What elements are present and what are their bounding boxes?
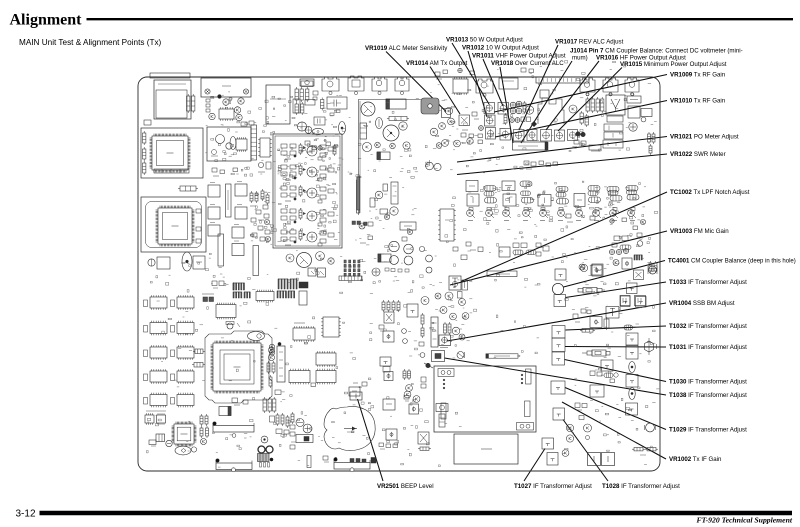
coil can	[322, 77, 339, 95]
box with dark core	[432, 351, 445, 362]
ecap cluster	[510, 101, 526, 114]
small parts br	[232, 398, 248, 405]
svg-text:VR1018 Over Current ALC: VR1018 Over Current ALC	[491, 60, 564, 67]
speckle topleft2	[205, 96, 351, 179]
trimmer circle	[372, 268, 380, 276]
svg-text:T1030 IF Transformer Adjust: T1030 IF Transformer Adjust	[669, 379, 747, 386]
transistor small	[375, 142, 381, 148]
transistor small	[328, 258, 334, 264]
tall narrow bar 2	[218, 234, 224, 266]
svg-text:3-12: 3-12	[16, 509, 36, 520]
square with trimmer	[606, 307, 619, 319]
svg-text:VR1010 Tx RF Gain: VR1010 Tx RF Gain	[670, 98, 726, 105]
small part	[144, 120, 151, 125]
leader T1027	[524, 449, 545, 482]
leader VR1012	[468, 51, 487, 117]
cap in box C	[211, 150, 218, 157]
dark diamond	[531, 121, 537, 127]
screw left	[205, 89, 210, 94]
pin comb headers2	[277, 291, 295, 298]
oval slug2	[629, 388, 636, 400]
mixer rows extra	[468, 208, 635, 221]
dark dot bar2	[216, 459, 220, 463]
transistor	[286, 254, 294, 262]
svg-text:T1038 IF Transformer Adjust: T1038 IF Transformer Adjust	[669, 392, 747, 399]
label T1033	[669, 279, 747, 286]
CPU island outline	[205, 331, 272, 403]
speckle mixer gap	[445, 183, 546, 241]
svg-text:TC4001 CM Coupler Balance (dee: TC4001 CM Coupler Balance (deep in this …	[668, 259, 796, 265]
shield square grid	[208, 182, 247, 256]
SOIC U4007	[216, 303, 236, 320]
speckle topmid	[358, 99, 557, 173]
LP square	[380, 357, 391, 372]
label J1014	[570, 48, 743, 62]
svg-text:VR1015 Minimum Power Output Ad: VR1015 Minimum Power Output Adjust	[620, 61, 727, 68]
transistors in box C	[216, 135, 237, 150]
small cluster	[574, 140, 601, 151]
small parts	[275, 382, 367, 395]
cap box	[607, 116, 623, 122]
tall vertical bar conn	[431, 317, 438, 347]
mixer filter rows	[466, 181, 639, 207]
svg-text:VR1017 REV ALC Adjust: VR1017 REV ALC Adjust	[555, 39, 624, 46]
hatch bar	[439, 414, 445, 427]
label VR1004	[669, 300, 735, 307]
leader VR1009	[494, 75, 667, 113]
MAIN unit board outline	[138, 77, 660, 471]
footer rule	[40, 511, 793, 516]
leader VR1022	[457, 154, 667, 175]
T squares bottom	[621, 296, 647, 307]
IC top edge	[453, 77, 468, 95]
tiny parts row	[385, 268, 409, 272]
module with screws	[201, 78, 251, 97]
parts br2	[632, 448, 658, 456]
striped box dark	[296, 435, 313, 443]
resistor pair right of J4001	[187, 94, 195, 113]
T square T1030	[552, 352, 565, 365]
analog module block	[273, 134, 342, 248]
edge hole	[232, 468, 236, 472]
circles	[269, 344, 275, 355]
square right	[407, 304, 418, 317]
bracket small	[307, 456, 311, 468]
VR pot square	[484, 103, 495, 114]
edge hole2	[350, 468, 354, 472]
coil can	[372, 77, 387, 95]
varactor oval	[175, 446, 191, 455]
round VR	[629, 123, 637, 131]
inner parts big module	[438, 369, 534, 431]
svg-text:VR1021 PO Meter Adjust: VR1021 PO Meter Adjust	[670, 134, 739, 141]
trim bars pair	[444, 322, 452, 335]
VR pot row sq4	[541, 130, 552, 142]
resistor h pair	[192, 349, 205, 367]
label T1030	[669, 379, 747, 386]
T square colB 1	[626, 333, 638, 345]
right column parts	[276, 413, 289, 434]
speckle bottom left	[147, 398, 310, 467]
svg-text:VR1004 SSB BM Adjust: VR1004 SSB BM Adjust	[669, 300, 735, 307]
small label parts	[330, 110, 340, 116]
sixth square row	[568, 130, 578, 141]
tiny parts row	[379, 443, 398, 449]
big hole circle TC4001	[552, 283, 563, 294]
crystal circle	[226, 322, 240, 330]
leader T1029	[565, 388, 666, 430]
square with X	[634, 270, 644, 280]
title rule	[87, 18, 794, 20]
leader TC4001	[564, 261, 666, 288]
leader T1028	[563, 420, 608, 482]
vbar cross	[604, 317, 609, 330]
striped rect	[156, 434, 165, 442]
connector J1014 wide	[536, 77, 589, 83]
dense column speckle	[250, 192, 276, 244]
power transistor big	[361, 102, 375, 116]
svg-text:VR1013 50 W Output Adjust: VR1013 50 W Output Adjust	[446, 37, 523, 44]
small parts pa	[472, 112, 483, 144]
dark circle pair	[576, 132, 585, 137]
square T mid	[601, 360, 613, 371]
small part	[241, 121, 254, 126]
box with trimmer	[641, 109, 652, 122]
speckle transformer zone	[572, 306, 659, 401]
coil can	[395, 77, 409, 95]
power transistor big	[383, 125, 399, 141]
hex core	[645, 338, 657, 355]
leader T1033	[566, 282, 667, 298]
resistor cluster small	[580, 111, 588, 127]
speckle cluster NE	[430, 298, 472, 346]
subtitle 'MAIN Unit Test & Alignment Points (Tx)'	[19, 38, 162, 47]
svg-text:VR1012 10 W Output Adjust: VR1012 10 W Output Adjust	[462, 45, 539, 52]
speckle widefill7	[157, 301, 278, 387]
needle trimmer	[357, 175, 360, 213]
leader VR1021	[457, 137, 667, 163]
square small	[591, 265, 602, 275]
square pair	[308, 268, 326, 277]
svg-text:VR1022 SWR Meter: VR1022 SWR Meter	[670, 151, 726, 158]
tall rect	[540, 90, 549, 98]
label T1028	[602, 483, 680, 490]
small rect	[383, 184, 388, 191]
CPU QFP Q4004	[211, 341, 264, 394]
label VR1017	[555, 39, 624, 46]
svg-text:VR1003 FM Mic Gain: VR1003 FM Mic Gain	[670, 228, 729, 235]
small circles	[402, 329, 408, 344]
square	[590, 317, 602, 328]
speckle widefill6	[283, 403, 429, 460]
parts cluster mid	[499, 243, 549, 257]
circles right of CPU	[269, 347, 275, 361]
speckle topright	[569, 96, 657, 152]
rect below QFPB	[157, 257, 170, 269]
small parts	[404, 396, 409, 402]
boxed caps2	[603, 140, 623, 148]
resistors left of QFP A	[143, 131, 146, 175]
module M2 tall	[266, 85, 290, 124]
label VR1019	[365, 45, 448, 52]
box	[628, 106, 640, 118]
QFP shield box B	[141, 197, 206, 252]
VR pot row sq3	[527, 130, 537, 141]
resistors right of CPU	[267, 361, 275, 388]
connector J4001	[154, 80, 191, 119]
SOIC U3	[316, 369, 336, 385]
oval trimmer above CPU	[248, 332, 265, 341]
parts on bar3	[350, 458, 376, 464]
svg-text:J1014 Pin 7 CM Coupler Balance: J1014 Pin 7 CM Coupler Balance: Connect …	[570, 48, 743, 55]
circle small	[579, 264, 585, 270]
rect right of ellipse	[193, 256, 205, 269]
tiny dark squares	[352, 221, 367, 226]
VR pot square	[486, 128, 496, 140]
speckle analog lower	[288, 251, 423, 294]
edge tabs QFP B	[196, 209, 201, 243]
relay box V	[606, 95, 625, 115]
trimmer square TC1002	[449, 276, 461, 290]
ellipse vertical big	[182, 252, 192, 271]
leader T1038	[445, 358, 667, 395]
resistor box	[627, 96, 641, 103]
edge connector bar 3	[334, 460, 370, 469]
crystal and caps	[258, 162, 271, 172]
SOIC U	[293, 323, 315, 342]
label VR1010	[670, 98, 726, 105]
dark dot	[278, 342, 281, 345]
R square	[606, 304, 608, 306]
boxed caps	[604, 124, 623, 139]
speckle block2	[278, 136, 340, 241]
pin headers	[278, 279, 297, 289]
T square colB 3	[626, 375, 638, 388]
label VR1012	[462, 45, 539, 52]
parts small	[323, 456, 329, 462]
vres right	[649, 261, 657, 273]
rect part	[349, 387, 360, 396]
module J7001	[454, 434, 518, 464]
dark rect	[299, 282, 308, 288]
T square colB 4	[626, 403, 638, 415]
T square T1033	[554, 295, 566, 307]
circle cluster lower	[389, 241, 414, 265]
svg-text:VR1014 AM Tx Output: VR1014 AM Tx Output	[406, 60, 468, 67]
dark transistor blob	[218, 95, 222, 99]
SOIC U2	[316, 351, 336, 367]
small parts pair	[212, 281, 224, 288]
relay dark right	[219, 407, 231, 416]
label T1029	[669, 427, 747, 434]
speckle pa lower	[350, 149, 418, 178]
VR1004 pot box	[439, 335, 451, 346]
T square	[627, 283, 638, 294]
squares bottom pair	[588, 453, 615, 466]
leader VR1017	[519, 45, 558, 130]
svg-text:TC1002 Tx LPF Notch Adjust: TC1002 Tx LPF Notch Adjust	[670, 189, 750, 196]
coil can	[603, 78, 618, 96]
parts fill A	[359, 222, 413, 243]
svg-text:VR1019 ALC Meter Sensitivity: VR1019 ALC Meter Sensitivity	[365, 45, 448, 52]
label VR1003	[670, 228, 729, 235]
speckle widefill8	[441, 306, 539, 358]
svg-text:T1027 IF Transformer Adjust: T1027 IF Transformer Adjust	[514, 483, 592, 490]
dark bar	[462, 280, 468, 290]
small DIP pair	[145, 411, 166, 425]
IC top edge	[499, 78, 518, 89]
T square T1027	[542, 438, 554, 449]
label T1038	[669, 392, 747, 399]
label VR1009	[670, 72, 726, 79]
box with capacitor	[327, 97, 347, 109]
heatsink pad	[421, 98, 439, 114]
small parts	[313, 91, 318, 100]
tall narrow bar 3	[253, 246, 259, 276]
DIP vertical U	[321, 317, 341, 337]
QFP IC Q4001	[150, 134, 191, 173]
h resistor	[418, 447, 431, 450]
circle next to oval	[191, 447, 196, 452]
leader T1032	[566, 326, 667, 330]
tall narrow bar 1	[226, 184, 232, 217]
vertical rect	[370, 198, 375, 207]
right edge resistors	[648, 132, 656, 155]
circles pair	[404, 385, 412, 398]
syringe trimmer	[578, 288, 605, 294]
VR pot row sq5	[555, 130, 565, 141]
small rects	[293, 81, 315, 113]
pin bar	[339, 276, 362, 281]
rect	[380, 209, 388, 214]
transistor	[403, 142, 410, 149]
tall bar	[391, 182, 398, 204]
oval slug	[629, 362, 636, 373]
speckle widefill2	[355, 188, 417, 252]
speckle widefill5	[430, 61, 651, 95]
analog block speckle	[278, 139, 341, 241]
speckle widefill4	[150, 253, 268, 292]
leader VR1004	[447, 303, 666, 341]
dark square pair	[202, 294, 214, 302]
vres pair	[403, 369, 411, 380]
T square extra	[547, 453, 558, 466]
dense part column	[250, 189, 271, 242]
T square T1031	[552, 338, 565, 352]
leader VR1010	[495, 101, 667, 138]
parts br1	[575, 403, 587, 420]
dark ring circles	[258, 446, 273, 453]
label VR1013	[446, 37, 523, 44]
square IC pad	[459, 115, 470, 126]
DIP IC vertical	[258, 138, 272, 157]
SOIC U4	[289, 369, 310, 385]
leader VR1016	[546, 61, 599, 130]
comb resistors	[382, 300, 400, 312]
square mid2	[418, 432, 429, 444]
circles cluster br	[562, 424, 591, 456]
vertical rect	[299, 291, 307, 305]
label bar long	[486, 354, 518, 358]
ecap pair	[297, 122, 312, 133]
battery blob	[324, 406, 375, 450]
SOIC memory grid	[144, 295, 195, 407]
small circle	[586, 436, 590, 440]
parts column	[200, 414, 209, 445]
left edge parts	[420, 353, 433, 388]
QFP small Q	[172, 422, 197, 447]
circle cluster NE of CPU	[421, 292, 469, 340]
svg-text:VR1002 Tx IF Gain: VR1002 Tx IF Gain	[669, 456, 722, 463]
dark dot bar3	[334, 458, 338, 462]
resistor cluster	[586, 97, 604, 113]
leader VR1003	[450, 231, 667, 285]
page title 'Alignment'	[10, 12, 83, 29]
resistor	[321, 98, 324, 111]
speckle pa zone	[434, 100, 553, 170]
square sym	[409, 404, 419, 414]
leader VR1018	[500, 67, 513, 143]
svg-text:T1028 IF Transformer Adjust: T1028 IF Transformer Adjust	[602, 483, 680, 490]
footer page number 3-12	[16, 509, 36, 520]
resistor R horizontal	[178, 186, 198, 191]
syringe trimmer 2	[582, 350, 610, 356]
leader VR1015	[558, 68, 622, 132]
VR pot square	[485, 115, 496, 126]
svg-text:VR2501 BEEP Level: VR2501 BEEP Level	[377, 483, 434, 490]
speckle bottom mid	[332, 396, 462, 467]
resistor horizontal	[387, 117, 409, 121]
coil can	[476, 79, 493, 97]
small module VR1019 target	[442, 109, 451, 118]
label VR1021	[670, 134, 739, 141]
footer text 'FT-920 Technical Supplement'	[696, 515, 792, 524]
T square T1028	[553, 408, 565, 420]
screw right	[243, 89, 248, 94]
svg-text:FT-920 Technical Supplement: FT-920 Technical Supplement	[696, 515, 792, 524]
label T1032	[669, 323, 747, 330]
flag trimmer circle	[457, 352, 465, 359]
leader VR1002	[562, 402, 666, 459]
speckle mid	[422, 241, 544, 288]
SIP resistor array	[251, 125, 257, 160]
svg-text:T1032 IF Transformer Adjust: T1032 IF Transformer Adjust	[669, 323, 747, 330]
trim circle	[166, 440, 172, 446]
QFP IC Q4002	[156, 206, 195, 247]
squares right	[383, 399, 395, 410]
label T1027	[514, 483, 592, 490]
oval cap E1	[313, 128, 324, 134]
T squares small cluster	[555, 258, 632, 280]
connector bar thin	[487, 271, 517, 277]
relay dark edge	[377, 152, 390, 160]
dark dot bar1	[213, 422, 217, 426]
square small	[384, 372, 393, 381]
box dark left	[378, 254, 391, 262]
VR pot row sq2	[514, 130, 525, 142]
leader T1031	[565, 346, 666, 349]
rect with label	[400, 222, 416, 230]
comb connector bottomleft zone	[233, 283, 245, 290]
fuse box	[436, 404, 448, 412]
small parts	[206, 99, 210, 112]
mixer transistor row	[467, 210, 636, 218]
leader VR1013	[452, 43, 489, 104]
coil can	[580, 78, 595, 96]
label T1031	[669, 344, 747, 351]
label TC4001	[668, 259, 796, 265]
rect small	[458, 292, 463, 299]
